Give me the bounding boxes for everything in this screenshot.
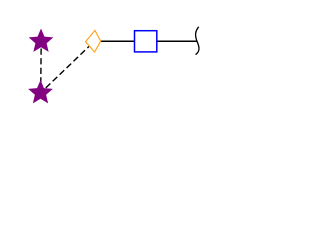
wire: diagonal dashed link star to diamond (41, 41, 95, 93)
star (bottom, purple) (28, 80, 53, 103)
square (blue, open) (135, 31, 157, 52)
wire: vertical dashed link between stars (40, 41, 43, 93)
wire: solid backbone square to squiggle (157, 40, 197, 42)
diamond (orange, open) (86, 30, 101, 52)
star (top, purple) (29, 29, 54, 52)
wire: solid backbone diamond to square (101, 40, 135, 42)
squiggle: reducing-end marker (196, 27, 199, 54)
